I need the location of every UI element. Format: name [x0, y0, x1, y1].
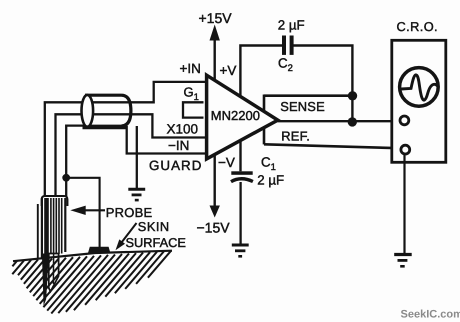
probe needles below skin	[42, 254, 49, 307]
svg-text:+IN: +IN	[180, 61, 201, 76]
svg-text:SURFACE: SURFACE	[126, 235, 186, 250]
ground (guard shield)	[128, 189, 145, 200]
arrow and label PROBE	[75, 209, 105, 211]
svg-text:+V: +V	[220, 63, 237, 78]
svg-text:C.R.O.: C.R.O.	[397, 19, 439, 34]
svg-text:2 µF: 2 µF	[257, 172, 284, 187]
svg-text:PROBE: PROBE	[106, 205, 153, 220]
skin surface line	[13, 251, 172, 262]
capacitor C1	[231, 171, 252, 175]
wire cable shield to ground	[136, 126, 138, 189]
wire -IN path from probe through cable to amplifier	[56, 114, 207, 197]
wire junction to skin reference pad	[66, 178, 99, 248]
C.R.O. oscilloscope box	[392, 40, 446, 162]
svg-text:+15V: +15V	[199, 10, 233, 26]
wire shield lead to probe	[66, 126, 83, 197]
op-amp U1 MN2200	[207, 75, 278, 159]
node sense junction	[348, 91, 357, 100]
SENSE/REF output box	[264, 95, 400, 149]
wire sense divider from op-amp output to CRO	[278, 120, 399, 122]
probe needles above skin	[37, 204, 39, 260]
wire CRO terminal to ground	[403, 155, 405, 253]
svg-text:SeekIC.com: SeekIC.com	[401, 309, 460, 321]
skin hatching	[12, 251, 171, 314]
wire C2 top loop	[240, 46, 282, 97]
wire +IN path from probe through cable to amplifier	[45, 82, 207, 197]
svg-text:MN2200: MN2200	[211, 108, 260, 123]
capacitor C2 plates	[282, 36, 286, 55]
wire guard from cable shield to amplifier	[127, 126, 207, 154]
svg-text:SENSE: SENSE	[280, 99, 325, 114]
gain resistor G1 box	[183, 102, 204, 117]
wire C1 to ground	[239, 182, 241, 244]
svg-text:−IN: −IN	[168, 138, 189, 153]
svg-text:2 µF: 2 µF	[278, 17, 305, 32]
junction node on shield lead	[62, 174, 70, 182]
reference pad on skin	[88, 247, 110, 253]
svg-text:X100: X100	[167, 122, 199, 137]
ground (C1)	[232, 245, 249, 256]
-15V supply arrow	[213, 155, 215, 208]
CRO input terminal (sense)	[400, 116, 409, 125]
+15V supply arrow	[213, 33, 215, 81]
shielded cable cylinder	[82, 95, 131, 127]
probe cap	[42, 196, 68, 206]
ground (CRO)	[394, 255, 412, 267]
svg-text:GUARD: GUARD	[149, 158, 202, 173]
CRO input terminal (ref)	[401, 145, 410, 154]
CRT screen with waveform	[400, 68, 439, 107]
wire -V to C1	[239, 140, 241, 171]
node ref junction	[348, 117, 357, 126]
probe electrode assembly	[38, 196, 68, 306]
svg-text:−15V: −15V	[197, 220, 231, 236]
svg-text:−V: −V	[218, 155, 235, 170]
svg-text:SKIN: SKIN	[138, 219, 170, 234]
svg-text:REF.: REF.	[281, 128, 310, 143]
